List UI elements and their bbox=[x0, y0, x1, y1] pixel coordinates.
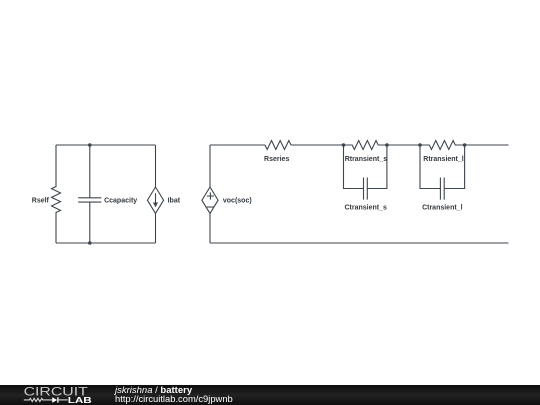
svg-text:http://circuitlab.com/c9jpwnb: http://circuitlab.com/c9jpwnb bbox=[115, 393, 233, 404]
current source Ibat bbox=[147, 145, 180, 243]
node left of second RC block bbox=[418, 143, 422, 147]
resistor Rseries bbox=[264, 141, 291, 163]
wire left branch of first RC block bbox=[344, 145, 364, 189]
wire Rseries to first RC block bbox=[291, 144, 344, 146]
node left of first RC block bbox=[342, 143, 346, 147]
resistor Rtransient_l bbox=[420, 141, 465, 163]
node junction bottom middle bbox=[88, 241, 92, 245]
svg-text:LAB: LAB bbox=[68, 397, 92, 405]
node right of second RC block bbox=[463, 143, 467, 147]
wire source to Rseries bbox=[210, 144, 265, 146]
svg-text:Ctransient_s: Ctransient_s bbox=[344, 205, 387, 212]
capacitor Ctransient_l bbox=[422, 178, 463, 212]
wire top of left loop bbox=[56, 144, 156, 146]
svg-text:Ctransient_l: Ctransient_l bbox=[422, 205, 463, 212]
resistor Rself bbox=[32, 145, 61, 243]
svg-text:Ccapacity: Ccapacity bbox=[104, 198, 137, 205]
svg-text:Rseries: Rseries bbox=[264, 156, 289, 163]
wire second RC block to right end bbox=[465, 144, 509, 146]
CircuitLab logo diode bbox=[52, 397, 57, 403]
wire right branch of first RC block bbox=[367, 145, 387, 189]
svg-text:Rtransient_l: Rtransient_l bbox=[423, 156, 464, 163]
wire left branch of second RC block bbox=[420, 145, 440, 189]
svg-text:Rself: Rself bbox=[32, 198, 50, 205]
CircuitLab logo resistor squiggle bbox=[24, 398, 52, 401]
capacitor Ccapacity bbox=[78, 145, 137, 243]
resistor Rtransient_s bbox=[344, 141, 388, 163]
capacitor Ctransient_s bbox=[344, 178, 387, 212]
voltage source voc(soc) bbox=[202, 145, 252, 243]
wire between RC blocks bbox=[387, 144, 420, 146]
node junction top middle bbox=[88, 143, 92, 147]
footer bar bbox=[0, 385, 540, 405]
wire bottom of right circuit bbox=[210, 242, 509, 244]
node right of first RC block bbox=[385, 143, 389, 147]
wire right branch of second RC block bbox=[444, 145, 464, 189]
svg-text:Ibat: Ibat bbox=[168, 198, 181, 205]
svg-text:voc(soc): voc(soc) bbox=[223, 198, 252, 205]
svg-text:CIRCUIT: CIRCUIT bbox=[24, 384, 89, 398]
svg-text:Rtransient_s: Rtransient_s bbox=[345, 156, 388, 163]
wire bottom of left loop bbox=[56, 242, 156, 244]
